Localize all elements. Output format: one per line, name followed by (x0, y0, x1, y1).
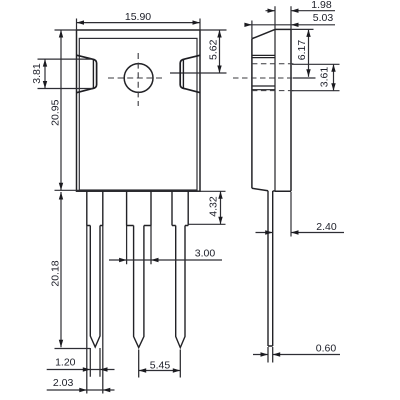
dim 3.00 arrows (119, 258, 158, 262)
dim 5.03 extension line (251, 21, 253, 39)
svg-text:5.62: 5.62 (208, 39, 220, 60)
lead 2 wide part (127, 191, 151, 225)
svg-text:2.40: 2.40 (316, 221, 337, 233)
svg-text:3.61: 3.61 (319, 67, 331, 88)
svg-text:0.60: 0.60 (316, 343, 337, 355)
dim 0.60 line (253, 354, 340, 356)
lead 1 narrow extension lines (90, 348, 100, 377)
dim 3.61 extension lines (292, 64, 340, 90)
dim 20.95 arrows (59, 30, 63, 190)
dim 1.98 arrows (268, 9, 299, 13)
dim 3.81 extension lines (38, 59, 93, 88)
side view lead extension lines (268, 347, 273, 363)
left wing (77, 55, 97, 92)
lead 1 wide extension lines (87, 226, 103, 394)
dim 6.17 arrows (306, 29, 310, 76)
dim 4.32 arrows (218, 191, 222, 224)
side view plastic/tab interface (274, 29, 276, 191)
dim 5.62 arrows (217, 30, 221, 73)
dim 2.40 extension line (290, 192, 292, 237)
dim 4.32 line (220, 191, 222, 224)
dim 5.45 extension lines (139, 350, 181, 378)
side view bottom edge (252, 188, 291, 191)
dim 5.45 arrows (139, 368, 181, 372)
dim 15.90 line (77, 22, 201, 24)
dim 3.81 arrows (43, 59, 47, 88)
mounting hole (124, 64, 153, 93)
dim 6.17 top extension (291, 28, 314, 30)
lead 2 narrow part (134, 226, 144, 348)
svg-text:3.81: 3.81 (31, 63, 43, 84)
dim 5.03 arrows (244, 23, 298, 27)
svg-text:6.17: 6.17 (296, 40, 308, 61)
dim 20.18 arrows (59, 192, 63, 347)
dim 3.61 arrows (331, 64, 335, 90)
dim 15.90 extension lines (77, 19, 201, 31)
dim 15.90 arrows (77, 20, 201, 24)
right wing inner edge (182, 59, 184, 88)
dim 20.18 line (60, 192, 62, 347)
lead 2 wide extension lines (127, 226, 151, 265)
dim 20.18 bottom extension (55, 348, 91, 350)
dim 6.17 bottom extension (293, 77, 316, 79)
side view hidden hole edges (dashed) (252, 64, 296, 91)
dim 3.81 line (44, 59, 46, 88)
left wing inner edge (92, 59, 94, 88)
dim 2.03 line (47, 389, 115, 391)
dim 2.40 line (256, 232, 345, 234)
right wing (180, 55, 200, 92)
front view body outer outline (77, 30, 201, 191)
horizontal centerline through side view (233, 77, 293, 79)
dim 1.98 extension lines (275, 6, 291, 29)
dim 5.62 line (219, 30, 221, 73)
dim 3.00 line (109, 259, 222, 261)
dim 0.60 arrows (261, 352, 281, 356)
svg-text:4.32: 4.32 (208, 196, 220, 217)
svg-text:5.45: 5.45 (150, 359, 171, 371)
dim 1.20 arrows (83, 367, 108, 371)
lead 1 wide part (87, 191, 103, 225)
side view front face (251, 39, 253, 189)
dim 5.45 line (139, 370, 181, 372)
dim 2.03 arrows (79, 388, 110, 392)
dim 1.98 line (266, 10, 336, 12)
side view tab top edge (275, 28, 291, 30)
svg-text:5.03: 5.03 (313, 12, 334, 24)
dim 20.95 extension lines (55, 30, 80, 190)
dim 5.62 bottom extension (170, 72, 227, 74)
hole vertical centerline (137, 53, 139, 106)
dim 6.17 line (308, 29, 310, 76)
svg-text:1.20: 1.20 (55, 357, 76, 369)
side view tab back face (290, 29, 292, 191)
lead 3 narrow part (176, 226, 185, 348)
dim 3.61 line (333, 64, 335, 90)
dim 5.62 top extension (200, 29, 227, 31)
svg-text:3.00: 3.00 (195, 248, 216, 260)
dim 2.40 arrows (265, 230, 298, 234)
dim 4.32 extension lines (189, 191, 226, 224)
dim 1.20 line (47, 369, 115, 371)
svg-text:20.18: 20.18 (50, 260, 62, 286)
front view body inner outline (79, 38, 197, 190)
dim 20.95 line (60, 30, 62, 190)
side view lead (268, 191, 273, 346)
lead 3 wide part (172, 191, 188, 225)
hole horizontal centerline (108, 77, 165, 79)
dim 5.03 line (245, 24, 336, 26)
svg-text:2.03: 2.03 (53, 377, 74, 389)
svg-text:1.98: 1.98 (311, 0, 332, 11)
svg-text:20.95: 20.95 (50, 99, 62, 125)
side view top chamfer (252, 29, 275, 38)
side view wing projection lines (252, 55, 275, 89)
svg-text:15.90: 15.90 (125, 11, 151, 23)
lead 1 narrow part (90, 226, 100, 348)
